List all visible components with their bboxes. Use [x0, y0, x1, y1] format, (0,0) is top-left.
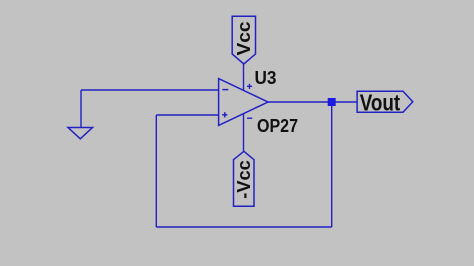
- svg-text:-Vcc: -Vcc: [234, 160, 254, 199]
- wire -Vcc supply lead: [243, 114, 245, 152]
- wire feedback left vertical: [155, 115, 157, 227]
- power flag Vcc: [232, 16, 255, 64]
- port flag Vout: [357, 91, 413, 112]
- wire inverting input horizontal: [81, 89, 219, 91]
- wire output: [268, 101, 357, 103]
- wire noninverting input horizontal: [156, 114, 218, 116]
- op-amp positive supply marker +: [247, 84, 252, 89]
- ground: [68, 128, 93, 139]
- op-amp inverting input marker -: [222, 89, 228, 91]
- op-amp noninverting input marker +: [222, 112, 227, 117]
- op-amp negative supply marker -: [247, 117, 252, 119]
- wire Vcc supply lead: [243, 64, 245, 90]
- wire feedback right vertical: [331, 102, 333, 227]
- wire inverting input vertical to ground: [80, 90, 82, 128]
- svg-text:Vout: Vout: [360, 90, 401, 116]
- power flag -Vcc: [234, 151, 255, 206]
- op-amp U3 triangle: [219, 79, 268, 126]
- svg-text:OP27: OP27: [257, 116, 298, 136]
- svg-text:U3: U3: [255, 68, 277, 88]
- wire feedback bottom horizontal: [156, 226, 331, 228]
- svg-text:Vcc: Vcc: [234, 22, 254, 56]
- node junction output/feedback: [328, 98, 336, 106]
